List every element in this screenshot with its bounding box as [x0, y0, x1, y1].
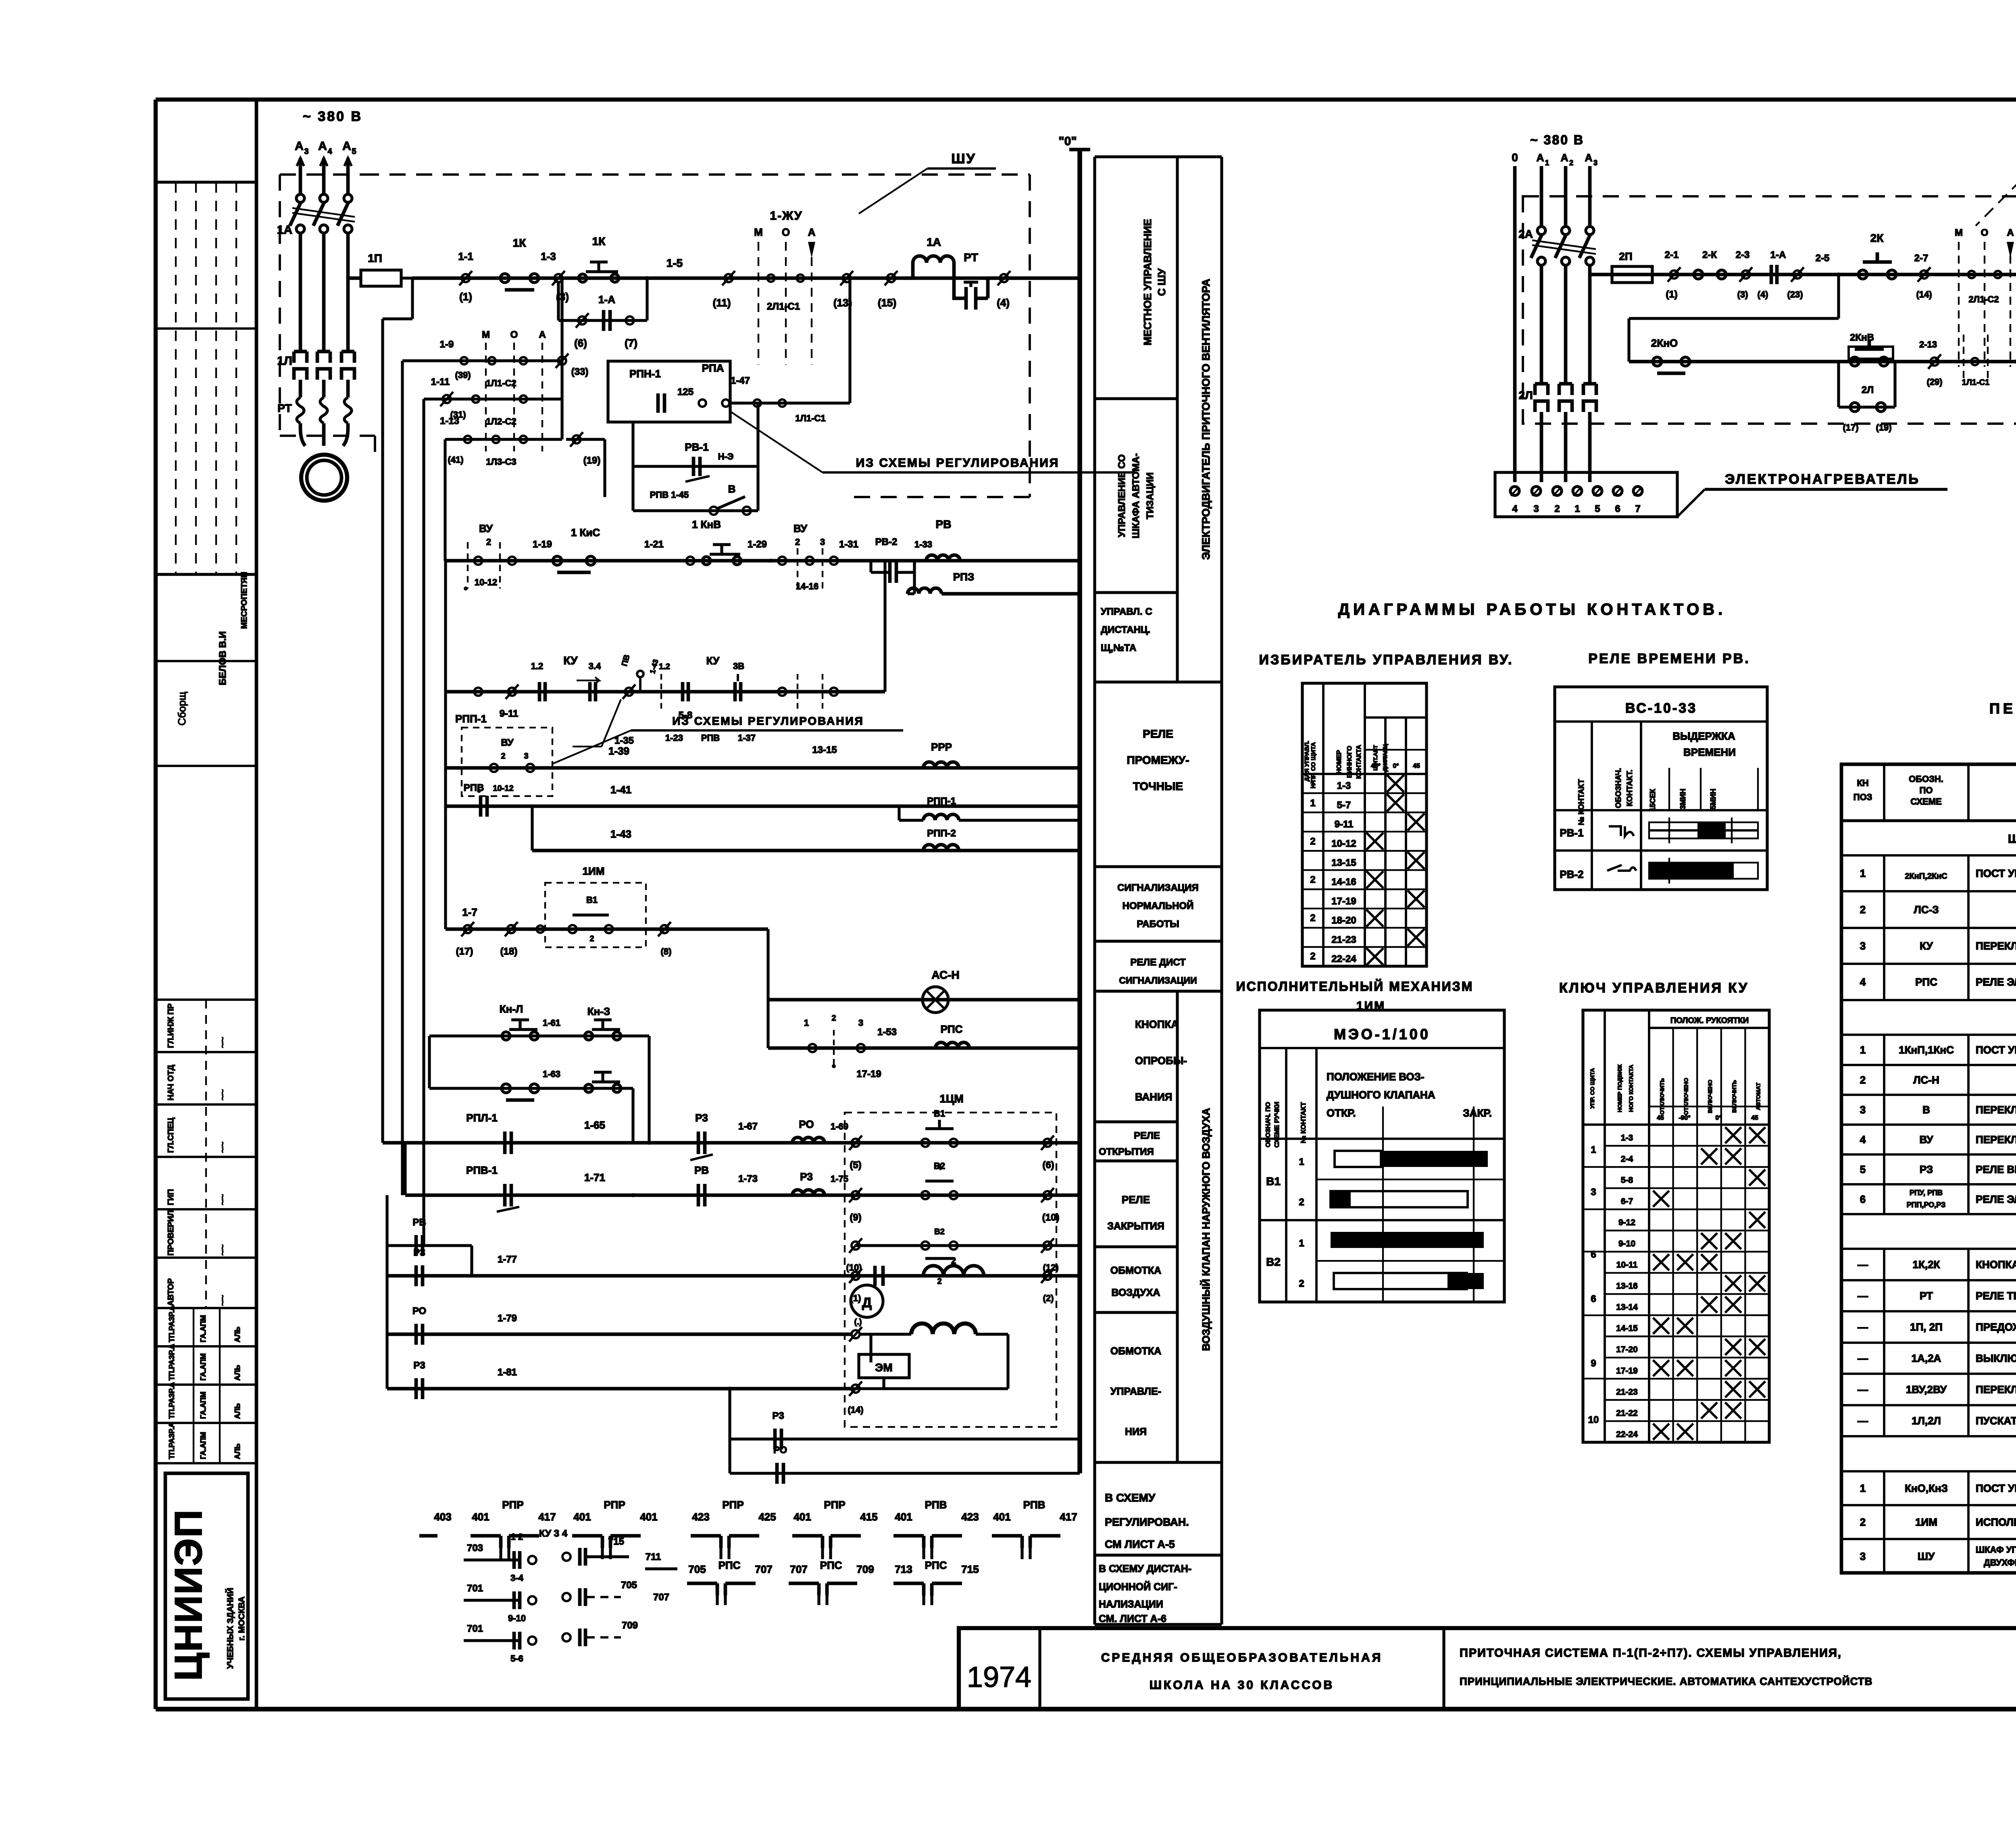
svg-text:(29): (29)	[1926, 377, 1942, 387]
svg-text:6: 6	[1591, 1294, 1596, 1304]
svg-text:ГЛ.СПЕЦ: ГЛ.СПЕЦ	[167, 1117, 175, 1153]
svg-text:ГА.АПМ: ГА.АПМ	[199, 1353, 207, 1381]
svg-text:~~: ~~	[217, 1244, 228, 1256]
svg-text:РПУ, РПВ: РПУ, РПВ	[1910, 1189, 1943, 1197]
svg-text:1-9: 1-9	[440, 339, 454, 350]
svg-text:ТП.РАЗР.А: ТП.РАЗР.А	[168, 1382, 176, 1419]
svg-text:В2: В2	[1266, 1256, 1281, 1268]
svg-text:ВОЗДУШНЫЙ КЛАПАН НАРУЖНОГО ВОЗ: ВОЗДУШНЫЙ КЛАПАН НАРУЖНОГО ВОЗДУХА	[1200, 1108, 1212, 1351]
svg-text:Щ,№ТА: Щ,№ТА	[1101, 643, 1136, 653]
section box normal signal	[1095, 882, 1222, 941]
coil RPR	[923, 741, 959, 768]
svg-text:М: М	[482, 329, 490, 340]
contact RO on 1-79	[412, 1306, 862, 1345]
svg-text:РО: РО	[799, 1118, 814, 1130]
svg-text:2: 2	[1310, 913, 1315, 923]
section box intermediate relays	[1095, 728, 1222, 867]
svg-text:705: 705	[688, 1563, 706, 1575]
svg-text:РВ-1: РВ-1	[1560, 827, 1583, 839]
svg-text:425: 425	[758, 1511, 776, 1523]
svg-text:1-73: 1-73	[738, 1173, 758, 1184]
circuit breaker 1A	[277, 194, 355, 258]
svg-text:КУ: КУ	[1920, 940, 1933, 952]
svg-text:(1): (1)	[459, 291, 472, 303]
svg-text:РПН-1: РПН-1	[629, 368, 661, 380]
heater fuse 2P	[1601, 250, 1664, 283]
svg-text:6: 6	[1615, 503, 1620, 514]
dashed box VU lower	[462, 728, 552, 796]
svg-text:1-19: 1-19	[533, 539, 552, 550]
button 1KnV	[692, 518, 741, 565]
selector VU contacts right	[793, 522, 825, 591]
aux contact group row A	[419, 1499, 1077, 1559]
svg-text:3-4: 3-4	[510, 1573, 524, 1583]
svg-text:10: 10	[1588, 1414, 1599, 1425]
svg-text:1К,2К: 1К,2К	[1913, 1258, 1940, 1271]
svg-text:(4): (4)	[1758, 289, 1768, 299]
svg-text:3: 3	[820, 537, 825, 547]
svg-text:СИГНАЛИЗАЦИЯ: СИГНАЛИЗАЦИЯ	[1117, 882, 1199, 893]
svg-text:ВИННОГО: ВИННОГО	[1346, 746, 1353, 778]
svg-text:Д: Д	[862, 1295, 872, 1310]
heater feeder wires	[1515, 166, 1590, 482]
bus left verticals	[383, 278, 445, 1246]
svg-text:7: 7	[1635, 503, 1640, 514]
svg-text:НОРМАЛЬНОЙ: НОРМАЛЬНОЙ	[1123, 900, 1194, 911]
svg-text:(23): (23)	[1787, 289, 1803, 299]
contact RPL-1	[466, 1112, 651, 1154]
svg-text:ПОЛОЖЕНИЕ ВОЗ-: ПОЛОЖЕНИЕ ВОЗ-	[1327, 1071, 1425, 1083]
wire lamp row	[768, 998, 1080, 1002]
svg-text:715: 715	[961, 1563, 979, 1575]
svg-text:1-61: 1-61	[543, 1018, 560, 1028]
svg-text:КУ 3 4: КУ 3 4	[539, 1528, 568, 1539]
svg-text:10-12: 10-12	[493, 784, 513, 793]
svg-text:ГЛ.ИНЖ ПР: ГЛ.ИНЖ ПР	[167, 1003, 175, 1048]
svg-text:РПР: РПР	[824, 1499, 845, 1511]
svg-text:—: —	[1858, 1352, 1868, 1364]
coil R3 on 1-71	[792, 1171, 848, 1195]
svg-text:РЗ: РЗ	[1920, 1163, 1933, 1175]
stamp strip project table rows	[156, 1306, 256, 1463]
svg-text:(6): (6)	[574, 337, 587, 349]
svg-text:4: 4	[1860, 1134, 1866, 1146]
svg-text:(.): (.)	[854, 1318, 862, 1327]
svg-text:МЕСРОПЕТЯН: МЕСРОПЕТЯН	[240, 572, 249, 629]
contact 1-29	[748, 539, 786, 565]
selector VU contacts left	[464, 522, 516, 591]
heater rail 3 buttons	[1629, 275, 2016, 362]
svg-text:2К: 2К	[1870, 232, 1884, 244]
svg-text:1.2: 1.2	[659, 662, 670, 671]
svg-text:2Л: 2Л	[1862, 385, 1874, 395]
heading contact work diagrams	[1338, 601, 1727, 618]
svg-text:(41): (41)	[448, 455, 463, 465]
heater dashed box ShU	[1523, 196, 2016, 424]
svg-text:2: 2	[1310, 836, 1315, 847]
svg-text:0: 0	[1512, 151, 1518, 164]
svg-text:401: 401	[573, 1511, 591, 1523]
svg-text:1: 1	[1545, 159, 1549, 167]
svg-text:РВ: РВ	[936, 518, 952, 530]
svg-text:УПРАВЛ. С: УПРАВЛ. С	[1101, 606, 1152, 617]
heater label with underline	[1677, 472, 1947, 517]
svg-text:417: 417	[1060, 1511, 1077, 1523]
heater dashed M O A	[1955, 227, 2014, 367]
wire rail 1-43	[532, 806, 1080, 851]
svg-text:ЭЛЕКТРОДВИГАТЕЛЬ ПРИТОЧНОГО ВЕ: ЭЛЕКТРОДВИГАТЕЛЬ ПРИТОЧНОГО ВЕНТИЛЯТОРА	[1200, 279, 1212, 559]
heater feeder labels	[1512, 133, 1597, 167]
contact 1-31	[830, 539, 858, 565]
coil RV	[926, 518, 960, 561]
contact R3 on 1-77	[413, 1247, 517, 1286]
svg-text:ИСПОЛНИТЕЛЬНЫЙ МЕХАНИЗМ: ИСПОЛНИТЕЛЬНЫЙ МЕХАНИЗМ	[1976, 1516, 2016, 1528]
wire rail 1-39	[446, 692, 1080, 768]
label RPP-1 upper	[455, 713, 487, 725]
svg-text:(33): (33)	[571, 366, 589, 377]
svg-text:Сборщ: Сборщ	[176, 692, 188, 726]
contact 1K NO	[500, 237, 539, 290]
svg-text:ТИЗАЦИИ: ТИЗАЦИИ	[1145, 472, 1156, 519]
svg-text:СХЕМЕ РУЧКИ: СХЕМЕ РУЧКИ	[1274, 1102, 1281, 1148]
svg-text:РПП-1: РПП-1	[927, 796, 956, 807]
svg-text:ВОЗДУХА: ВОЗДУХА	[1112, 1287, 1160, 1298]
svg-text:1: 1	[1591, 1144, 1596, 1155]
svg-text:1КнП,1КнС: 1КнП,1КнС	[1899, 1044, 1954, 1056]
buttons row 1-63	[502, 1069, 633, 1143]
svg-text:№ КОНТАКТ: № КОНТАКТ	[1300, 1102, 1307, 1143]
svg-text:1-А: 1-А	[598, 293, 615, 306]
label ~380V left feeder	[303, 109, 362, 124]
phase feeder wires	[297, 158, 352, 194]
svg-text:ДИАГРАММЫ РАБОТЫ КОНТАКТОВ.: ДИАГРАММЫ РАБОТЫ КОНТАКТОВ.	[1338, 601, 1727, 618]
svg-text:ВУ: ВУ	[793, 522, 808, 535]
svg-text:ОБОЗНАЧ. ПО: ОБОЗНАЧ. ПО	[1265, 1102, 1272, 1147]
svg-text:ПОЛОЖ. РУКОЯТКИ: ПОЛОЖ. РУКОЯТКИ	[1670, 1016, 1749, 1025]
svg-text:РПП-2: РПП-2	[927, 828, 956, 839]
table list columns	[1884, 764, 2016, 1573]
svg-text:3.4: 3.4	[589, 661, 601, 671]
svg-text:1К: 1К	[513, 237, 527, 249]
svg-text:5-6: 5-6	[510, 1653, 523, 1664]
svg-text:РЕЛЕ ЭЛЕКТРОМАГНИТНОЕ: РЕЛЕ ЭЛЕКТРОМАГНИТНОЕ	[1976, 976, 2016, 988]
svg-text:РЕЛЕ: РЕЛЕ	[1143, 728, 1173, 740]
svg-text:ТП.РАЗР.А: ТП.РАЗР.А	[168, 1423, 176, 1459]
svg-text:2-5: 2-5	[1816, 253, 1830, 264]
svg-text:РПВ: РПВ	[701, 733, 720, 743]
contact V1 in 1TsM	[921, 1109, 1054, 1172]
svg-text:17-19: 17-19	[1331, 896, 1356, 907]
svg-text:1: 1	[1310, 798, 1315, 809]
svg-text:(7): (7)	[625, 337, 637, 349]
svg-text:ЦНИИЭП: ЦНИИЭП	[167, 1509, 210, 1681]
svg-text:ГА.АПМ: ГА.АПМ	[199, 1391, 207, 1419]
svg-text:715: 715	[608, 1536, 624, 1547]
svg-text:~~: ~~	[217, 1142, 228, 1153]
svg-text:ДИСТАНЦ.: ДИСТАНЦ.	[1101, 624, 1150, 635]
svg-text:1-53: 1-53	[877, 1027, 897, 1038]
svg-text:ОТКЛЮЧИТЬ: ОТКЛЮЧИТЬ	[1659, 1078, 1665, 1115]
contact RPV on 1-41	[464, 782, 631, 817]
svg-text:14-16: 14-16	[796, 581, 818, 591]
wire RPA to MOA	[730, 278, 850, 423]
svg-text:ВЫКЛЮЧАТЕЛЬ АВТОМАТИЧЕСК.: ВЫКЛЮЧАТЕЛЬ АВТОМАТИЧЕСК.	[1976, 1352, 2016, 1364]
contact (11)	[713, 271, 735, 309]
dashed box 1IM small	[545, 865, 646, 947]
svg-text:1974: 1974	[967, 1661, 1031, 1693]
svg-text:423: 423	[692, 1511, 709, 1523]
svg-text:417: 417	[538, 1511, 556, 1523]
svg-text:401: 401	[793, 1511, 811, 1523]
section column frame	[1095, 157, 1222, 1624]
svg-text:6: 6	[1860, 1193, 1866, 1205]
svg-text:713: 713	[895, 1563, 912, 1575]
contacts row 1-9	[440, 339, 589, 388]
svg-text:3: 3	[1860, 1104, 1866, 1116]
svg-text:НИЯ: НИЯ	[1125, 1426, 1147, 1437]
coil RPZ branch	[908, 561, 1080, 594]
table section po mestu	[1841, 1448, 2016, 1472]
svg-text:УПРАВЛЕНИЕ СО: УПРАВЛЕНИЕ СО	[1116, 454, 1127, 537]
contactor 1L poles	[277, 258, 354, 397]
heading selector VU	[1259, 652, 1514, 668]
wire rail 1-65	[383, 1141, 1080, 1145]
svg-text:О: О	[510, 329, 518, 340]
contact RV on 1-71	[694, 1164, 758, 1206]
svg-text:ТП.РАЗР.А: ТП.РАЗР.А	[168, 1344, 176, 1381]
svg-text:РПС: РПС	[1915, 976, 1937, 988]
svg-text:КОНТАКТА: КОНТАКТА	[1356, 745, 1362, 779]
wire rail 1-77	[387, 1246, 1080, 1276]
contact V2 second	[846, 1227, 1058, 1286]
contact 2-1	[1665, 250, 1681, 300]
svg-text:~~: ~~	[217, 1295, 228, 1306]
svg-text:1: 1	[804, 1018, 809, 1028]
svg-text:Н-Э: Н-Э	[718, 451, 734, 462]
svg-text:~ 380 В: ~ 380 В	[1530, 133, 1584, 147]
svg-text:1: 1	[1860, 867, 1866, 880]
svg-text:ПУСКАТЕЛЬ МАГНИТНЫЙ: ПУСКАТЕЛЬ МАГНИТНЫЙ	[1976, 1415, 2016, 1427]
section column motor vertical text	[1200, 279, 1212, 559]
wire row 1-63	[429, 1087, 633, 1090]
button 2KnV	[1849, 332, 1893, 366]
svg-text:ВРЕМЕНИ: ВРЕМЕНИ	[1683, 746, 1736, 758]
svg-text:РПВ: РПВ	[925, 1499, 947, 1511]
svg-text:АВТОР: АВТОР	[167, 1278, 175, 1306]
svg-text:РАБОТЫ: РАБОТЫ	[1137, 919, 1179, 930]
svg-text:1ЦМ: 1ЦМ	[939, 1092, 963, 1105]
svg-text:В2: В2	[934, 1161, 945, 1171]
wire rail 1-41	[446, 768, 1080, 806]
svg-text:(5): (5)	[850, 1160, 861, 1171]
coil RPP-2	[923, 828, 959, 851]
svg-text:3: 3	[858, 1018, 863, 1028]
svg-text:1-63: 1-63	[543, 1069, 560, 1079]
svg-text:1-75: 1-75	[831, 1174, 848, 1184]
svg-text:2: 2	[486, 537, 491, 547]
dashed box 1TsM	[845, 1092, 1056, 1427]
svg-text:1П: 1П	[368, 252, 382, 264]
heading time relay RV	[1588, 651, 1750, 666]
svg-text:ДИСТАНЦ: ДИСТАНЦ	[1382, 744, 1388, 772]
svg-text:1-23: 1-23	[665, 733, 683, 743]
svg-text:ШКАФА АВТОМА-: ШКАФА АВТОМА-	[1131, 453, 1141, 538]
svg-text:РПР: РПР	[604, 1499, 625, 1511]
svg-text:ПЕРЕКЛЮЧАТЕЛЬ ПАКЕТНЫЙ: ПЕРЕКЛЮЧАТЕЛЬ ПАКЕТНЫЙ	[1976, 1383, 2016, 1396]
wire rail 1-71	[405, 1143, 1080, 1195]
svg-text:ПРИНЦИПИАЛЬНЫЕ ЭЛЕКТРИЧЕСКИЕ.: ПРИНЦИПИАЛЬНЫЕ ЭЛЕКТРИЧЕСКИЕ. АВТОМАТИКА…	[1460, 1675, 1872, 1687]
svg-text:РПС: РПС	[925, 1559, 947, 1571]
svg-text:РПР: РПР	[722, 1499, 744, 1511]
svg-text:18-20: 18-20	[1331, 915, 1356, 926]
heater contactor 2L	[1518, 265, 1596, 482]
svg-text:1-43: 1-43	[610, 828, 631, 840]
svg-text:ПРИТОЧНАЯ СИСТЕМА П-1(П-2÷П7).: ПРИТОЧНАЯ СИСТЕМА П-1(П-2÷П7). СХЕМЫ УПР…	[1460, 1647, 1842, 1660]
svg-text:А: А	[1537, 152, 1544, 164]
svg-text:РЕЛЕ: РЕЛЕ	[1122, 1194, 1150, 1206]
svg-text:2-3: 2-3	[1736, 250, 1750, 260]
svg-text:1: 1	[1299, 1156, 1304, 1167]
wire RPS row	[768, 1046, 1080, 1050]
svg-text:1-67: 1-67	[738, 1121, 758, 1132]
heater breaker 2A	[1518, 227, 1596, 265]
svg-text:РО: РО	[773, 1445, 787, 1456]
phase labels A3 A4 A5	[295, 139, 356, 156]
svg-text:1К: 1К	[592, 235, 606, 247]
coil RPS	[935, 1023, 969, 1048]
svg-text:ШУ: ШУ	[1918, 1550, 1935, 1562]
svg-text:1-79: 1-79	[498, 1313, 517, 1324]
contact V2 row1	[849, 1161, 1059, 1223]
svg-text:709: 709	[856, 1563, 874, 1575]
contact (15)	[878, 271, 898, 309]
contacts KU row	[474, 654, 838, 755]
table rows automation cabinet	[1841, 1039, 2016, 1065]
svg-text:НОГО КОНТАКТА: НОГО КОНТАКТА	[1628, 1065, 1634, 1112]
svg-text:РПЛ-1: РПЛ-1	[466, 1112, 497, 1124]
svg-text:РПЗ: РПЗ	[953, 571, 974, 583]
svg-text:НОМЕР ПОДВИЖ: НОМЕР ПОДВИЖ	[1616, 1064, 1623, 1112]
heading executive mechanism	[1236, 979, 1474, 1013]
svg-text:ПОЗ: ПОЗ	[1854, 792, 1872, 802]
wire row 1-11	[424, 361, 562, 399]
svg-text:ЛС-З: ЛС-З	[1914, 904, 1939, 916]
svg-text:ТОЧНЫЕ: ТОЧНЫЕ	[1133, 780, 1183, 792]
svg-text:(1): (1)	[1666, 289, 1677, 300]
contact 2-7	[1914, 253, 1932, 299]
svg-text:2-К: 2-К	[1702, 250, 1717, 260]
svg-text:2-13: 2-13	[1919, 339, 1937, 349]
svg-text:Р3: Р3	[800, 1171, 813, 1183]
svg-text:РТ: РТ	[1920, 1290, 1933, 1302]
svg-text:1-77: 1-77	[498, 1254, 517, 1265]
svg-text:НАЧ ОТД: НАЧ ОТД	[167, 1065, 175, 1101]
svg-text:А: А	[1561, 152, 1568, 164]
svg-text:ИСПОЛНИТЕЛЬНЫЙ МЕХАНИЗМ: ИСПОЛНИТЕЛЬНЫЙ МЕХАНИЗМ	[1236, 979, 1474, 994]
svg-text:ОТКЛЮЧЕНО: ОТКЛЮЧЕНО	[1683, 1078, 1689, 1115]
svg-text:14-15: 14-15	[1616, 1324, 1638, 1333]
svg-text:Р3: Р3	[413, 1247, 425, 1258]
svg-text:1-21: 1-21	[644, 539, 664, 550]
contact (4)	[997, 271, 1080, 309]
label iz skhemy regulirovaniya 1	[730, 411, 1135, 472]
svg-text:РЕЛЕ ТЕПЛОВОЕ: РЕЛЕ ТЕПЛОВОЕ	[1976, 1290, 2016, 1302]
svg-text:РВ: РВ	[694, 1164, 709, 1176]
svg-text:РПП-1: РПП-1	[455, 713, 487, 725]
svg-text:~~: ~~	[217, 1194, 228, 1205]
svg-text:СМ ЛИСТ А-5: СМ ЛИСТ А-5	[1105, 1538, 1175, 1550]
table section automation cabinet	[1841, 1012, 2016, 1035]
label iz skhemy regulirovaniya 2	[552, 715, 903, 764]
svg-text:СХЕМЕ: СХЕМЕ	[1910, 797, 1941, 807]
svg-text:ИЗ СХЕМЫ РЕГУЛИРОВАНИЯ: ИЗ СХЕМЫ РЕГУЛИРОВАНИЯ	[856, 456, 1060, 470]
svg-text:415: 415	[860, 1511, 877, 1523]
wire row V2 second	[387, 1195, 1080, 1246]
svg-text:РЕЛЕ ЭЛЕКТРОМАГНИТНОЕ: РЕЛЕ ЭЛЕКТРОМАГНИТНОЕ	[1976, 1193, 2016, 1205]
svg-text:(14): (14)	[1916, 289, 1932, 299]
svg-text:2Л1-С1: 2Л1-С1	[767, 301, 800, 312]
svg-text:КЛЮЧ УПРАВЛЕНИЯ КУ: КЛЮЧ УПРАВЛЕНИЯ КУ	[1559, 980, 1749, 996]
table rows control cabinet	[1841, 1258, 2016, 1280]
svg-text:ПРОВЕРИЛ: ПРОВЕРИЛ	[167, 1210, 175, 1256]
table rows po mestu	[1841, 1477, 2016, 1505]
contacts RPS row	[804, 1014, 897, 1079]
svg-text:1Л,2Л: 1Л,2Л	[1912, 1415, 1941, 1427]
buttons Kn-L Kn-Z	[500, 1003, 649, 1143]
svg-text:3: 3	[524, 752, 528, 761]
svg-text:14-16: 14-16	[1331, 877, 1356, 888]
svg-text:1-71: 1-71	[584, 1171, 605, 1183]
svg-text:2: 2	[1310, 874, 1315, 885]
coil 1A contactor	[903, 236, 960, 298]
svg-text:ПРЕДОХРАНИТЕЛЬ: ПРЕДОХРАНИТЕЛЬ	[1976, 1321, 2016, 1333]
svg-text:ИЗБИРАТЕЛЬ УПРАВЛЕНИЯ ВУ.: ИЗБИРАТЕЛЬ УПРАВЛЕНИЯ ВУ.	[1259, 652, 1514, 668]
svg-text:РПВ: РПВ	[464, 782, 484, 793]
svg-text:4: 4	[1512, 503, 1518, 514]
svg-text:701: 701	[467, 1623, 483, 1634]
svg-text:13-15: 13-15	[812, 745, 837, 755]
svg-text:(8): (8)	[661, 946, 672, 957]
svg-text:Р3: Р3	[413, 1360, 425, 1371]
branch 2L contact row4	[1839, 362, 1895, 433]
wire rail RO short	[730, 1472, 1080, 1475]
dashed lines M O A rows	[482, 329, 546, 451]
button 2KnO	[1651, 337, 1690, 373]
contact 1-1	[458, 250, 473, 303]
svg-text:4: 4	[327, 147, 332, 156]
contact 2-13	[1919, 339, 1943, 387]
svg-text:Кн-З: Кн-З	[587, 1005, 610, 1017]
svg-text:№ КОНТАКТ: № КОНТАКТ	[1577, 779, 1586, 825]
contact 1-A heater	[1770, 250, 1804, 299]
svg-text:15СЕК: 15СЕК	[1649, 788, 1657, 811]
button 1K	[579, 235, 619, 282]
coil RPP-1	[899, 796, 1080, 820]
wire row 1-9	[402, 278, 562, 361]
svg-text:ВЫДЕРЖКА: ВЫДЕРЖКА	[1672, 730, 1735, 742]
svg-text:1Л1-С1: 1Л1-С1	[1962, 378, 1990, 387]
svg-text:1-47: 1-47	[731, 375, 750, 386]
svg-text:ОБОЗН.: ОБОЗН.	[1909, 774, 1943, 784]
svg-text:В2: В2	[934, 1227, 945, 1236]
svg-text:0°: 0°	[1715, 1115, 1721, 1121]
svg-text:1-3: 1-3	[1337, 780, 1351, 791]
svg-text:1Л1-С2: 1Л1-С2	[486, 378, 516, 388]
svg-text:БЕЛОВ В.И: БЕЛОВ В.И	[217, 631, 228, 685]
svg-text:ПОСТ УПРАВЛЕНИЯ КНОПОЧН.: ПОСТ УПРАВЛЕНИЯ КНОПОЧН.	[1976, 1044, 2016, 1056]
svg-text:СИГНАЛИЗАЦИИ: СИГНАЛИЗАЦИИ	[1119, 975, 1197, 986]
svg-text:9-10: 9-10	[1618, 1239, 1635, 1248]
